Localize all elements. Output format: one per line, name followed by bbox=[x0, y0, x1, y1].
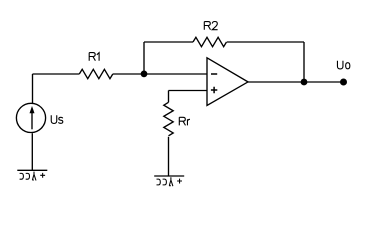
wire plus input down to Rr bbox=[168, 91, 170, 103]
label Us bbox=[51, 115, 63, 123]
node inverting input junction bbox=[141, 71, 148, 78]
resistor R2 bbox=[193, 37, 227, 46]
wire Rr to right ground bbox=[168, 137, 170, 176]
wire feedback up from inverting node bbox=[143, 42, 145, 74]
label Rr bbox=[179, 117, 190, 125]
op-amp minus sign bbox=[211, 73, 217, 75]
label R2 bbox=[204, 22, 217, 30]
resistor Rr bbox=[164, 102, 173, 136]
wire output node to terminal bbox=[304, 81, 344, 83]
label R1 bbox=[89, 53, 99, 61]
op-amp plus sign bbox=[211, 87, 217, 93]
wire op-amp plus input segment bbox=[169, 90, 208, 92]
wire source to left ground bbox=[31, 133, 33, 170]
op-amp U1 triangle bbox=[207, 58, 248, 106]
node output terminal Uo bbox=[340, 79, 347, 86]
wire feedback down to output node bbox=[303, 42, 305, 82]
wire op-amp output to output node bbox=[248, 81, 304, 83]
resistor R1 bbox=[79, 69, 113, 78]
wire inverting node to op-amp minus input bbox=[144, 73, 207, 75]
source arrow bbox=[31, 112, 33, 129]
wire R1 to inverting node bbox=[113, 73, 144, 75]
source Us branch wire from main net bbox=[32, 74, 34, 103]
wire feedback top left segment bbox=[144, 41, 193, 43]
wire main input net left segment bbox=[33, 73, 80, 75]
node output junction bbox=[301, 79, 308, 86]
ground left bbox=[17, 170, 47, 180]
label Uo bbox=[337, 61, 349, 69]
wire feedback top right segment bbox=[227, 41, 304, 43]
ground right bbox=[154, 176, 184, 186]
voltage source Us circle bbox=[16, 103, 45, 132]
